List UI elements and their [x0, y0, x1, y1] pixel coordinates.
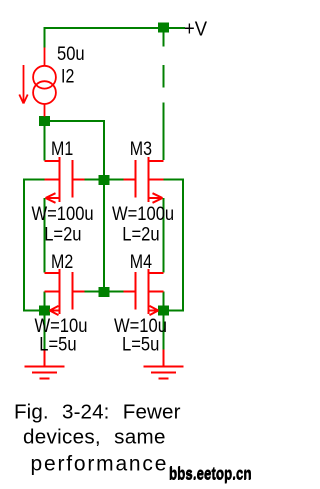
wire M3 gate to center node	[109, 179, 124, 181]
wire dashed +V rail segment 1	[163, 33, 165, 47]
svg-text:L=2u: L=2u	[44, 223, 81, 245]
transistor M3	[124, 157, 164, 203]
node I2 output junction square	[39, 116, 50, 126]
node M1-M3 gate junction square	[99, 175, 110, 185]
node +V junction square	[158, 23, 169, 33]
transistor M4	[124, 269, 164, 315]
svg-text:L=2u: L=2u	[122, 223, 159, 245]
svg-text:I2: I2	[61, 65, 74, 87]
svg-text:performance.: performance.	[31, 453, 176, 476]
wire M2 source node to ground	[44, 315, 46, 351]
svg-text:bbs.eetop.cn: bbs.eetop.cn	[169, 465, 252, 484]
wire stub right of +V node	[169, 27, 186, 29]
svg-text:L=5u: L=5u	[39, 333, 76, 355]
wire M3 source to M4 drain	[163, 198, 165, 273]
wire M1 source to M2 drain	[44, 198, 46, 273]
wire M4 bulk down to source node	[163, 292, 165, 307]
ground left	[25, 350, 65, 379]
node M2-M4 gate junction square	[99, 287, 110, 297]
transistor M2	[45, 269, 85, 315]
wire center column lower vertical	[103, 184, 105, 288]
svg-text:M2: M2	[51, 251, 73, 273]
svg-text:+V: +V	[184, 18, 207, 41]
svg-text:W=100u: W=100u	[112, 203, 174, 225]
wire I2 node down to M1 drain	[44, 126, 46, 161]
wire +V rail down to M3 drain	[163, 103, 165, 161]
svg-text:M4: M4	[130, 251, 152, 273]
svg-text:M3: M3	[130, 138, 152, 160]
wire M2 bulk down to source node	[44, 292, 46, 307]
wire top horizontal from I2 to +V node	[44, 27, 159, 29]
node M4 source junction square	[158, 306, 169, 316]
current source I2	[33, 48, 56, 117]
node M2 source junction square	[39, 306, 50, 316]
wire M4 source node to ground	[163, 315, 165, 351]
wire M3 bulk to right loop	[164, 179, 184, 181]
wire dashed +V rail segment 2	[163, 65, 165, 88]
svg-text:L=5u: L=5u	[122, 333, 159, 355]
wire left vertical down to I2	[44, 27, 46, 48]
wire M4 gate to center node	[109, 291, 124, 293]
svg-text:W=100u: W=100u	[32, 203, 94, 225]
wire left loop bottom horizontal	[23, 310, 40, 312]
current direction arrow of I2	[19, 65, 27, 104]
wire M1 bulk to left loop	[24, 179, 45, 181]
ground right	[144, 350, 184, 379]
svg-text:devices, same: devices, same	[23, 426, 166, 449]
watermark bbs.eetop.cn	[169, 464, 252, 484]
wire right loop vertical	[182, 179, 184, 312]
wire right loop bottom horizontal	[169, 310, 185, 312]
wire left loop vertical	[23, 179, 25, 312]
svg-text:Fig. 3-24: Fewer: Fig. 3-24: Fewer	[14, 401, 181, 424]
svg-text:50u: 50u	[57, 43, 85, 65]
transistor M1	[45, 157, 85, 203]
wire I2 output horizontal to center column	[50, 120, 105, 122]
svg-text:M1: M1	[51, 138, 73, 160]
wire center column upper vertical	[103, 120, 105, 176]
wire M1 gate to center node	[84, 179, 100, 181]
wire M2 gate to center node	[84, 291, 100, 293]
